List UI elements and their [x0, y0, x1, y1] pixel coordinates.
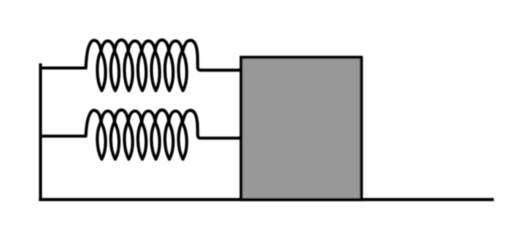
spring k2 coil loop 5 — [151, 122, 159, 159]
spring k1 coil loop 7 — [179, 51, 187, 90]
spring k1 hump 3 — [128, 41, 142, 53]
spring k1 hump 1 — [101, 41, 115, 53]
spring k2 hump 2 — [115, 110, 129, 123]
spring k1 coil loop 1 — [97, 51, 105, 90]
spring k2 exit curve and right wire — [182, 110, 241, 138]
spring k1 coil loop 2 — [111, 51, 119, 90]
spring k2 coil loop 1 — [97, 122, 105, 159]
spring k2 coil loop 6 — [165, 122, 173, 159]
spring k1 coil loop 4 — [138, 51, 146, 90]
spring k1 hump 5 — [155, 40, 169, 53]
spring k2 left wire and entry curve — [39, 110, 101, 136]
spring k1 hump 4 — [142, 41, 156, 53]
spring k2 coil loop 4 — [138, 122, 146, 159]
spring k2 coil loop 2 — [111, 122, 119, 159]
spring k2 hump 1 — [101, 111, 115, 123]
spring k1 left wire and entry curve — [39, 40, 101, 68]
spring k1 coil loop 3 — [124, 51, 132, 90]
spring k1 hump 2 — [115, 40, 129, 53]
spring k1 hump 6 — [169, 41, 183, 53]
ground line — [39, 198, 494, 201]
spring k2 hump 5 — [155, 110, 169, 123]
spring k2 coil loop 7 — [179, 122, 187, 159]
spring k2 hump 4 — [142, 111, 156, 123]
spring k2 hump 3 — [128, 111, 142, 123]
block mass M — [241, 57, 361, 199]
spring k1 coil loop 6 — [165, 51, 173, 90]
spring k1 coil loop 5 — [151, 51, 159, 90]
spring k1 exit curve and right wire — [182, 40, 241, 70]
spring k2 coil loop 3 — [124, 122, 132, 159]
wall — [39, 63, 42, 199]
spring k2 hump 6 — [169, 111, 183, 123]
